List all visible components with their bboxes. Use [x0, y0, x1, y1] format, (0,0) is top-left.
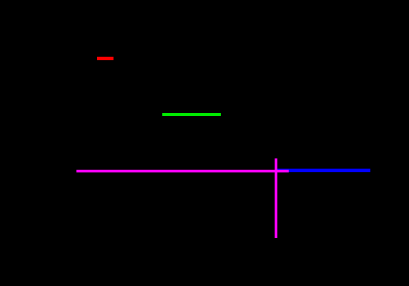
green segment [162, 113, 221, 116]
red segment [97, 57, 114, 60]
magenta vertical segment [275, 158, 278, 238]
magenta horizontal segment [76, 170, 288, 173]
blue segment [276, 169, 370, 172]
